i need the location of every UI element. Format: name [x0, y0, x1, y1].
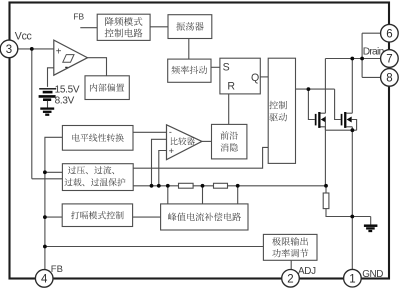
svg-text:7: 7	[386, 54, 392, 66]
svg-text:15.5V: 15.5V	[55, 84, 80, 95]
svg-text:Q: Q	[251, 72, 259, 84]
svg-text:1: 1	[349, 273, 355, 285]
svg-text:GND: GND	[362, 269, 383, 280]
svg-text:-: -	[169, 127, 172, 137]
svg-text:3: 3	[6, 44, 12, 56]
svg-text:S: S	[223, 62, 230, 74]
svg-text:Vcc: Vcc	[15, 31, 33, 43]
svg-text:ADJ: ADJ	[298, 266, 316, 277]
svg-text:FB: FB	[51, 264, 63, 275]
svg-text:2: 2	[287, 273, 293, 285]
svg-text:8: 8	[386, 73, 392, 85]
svg-text:FB: FB	[73, 11, 84, 21]
svg-text:4: 4	[41, 274, 48, 286]
svg-text:+: +	[169, 146, 175, 157]
svg-text:8.3V: 8.3V	[55, 96, 75, 107]
svg-text:6: 6	[386, 28, 392, 40]
svg-text:R: R	[227, 81, 235, 93]
svg-text:+: +	[56, 47, 62, 58]
